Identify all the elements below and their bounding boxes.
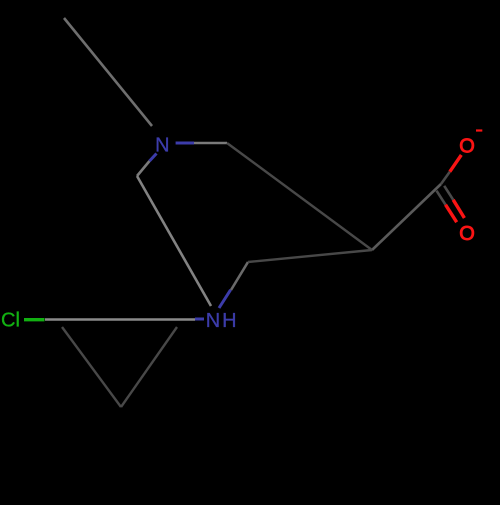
svg-text:H: H <box>222 310 236 332</box>
double bond C=O stroke 1 carbon half <box>437 191 446 205</box>
bond N-CH3 nitrogen half <box>176 142 194 145</box>
bond C-O(-) carbon half <box>441 172 450 184</box>
svg-text:O: O <box>459 135 475 157</box>
double bond C=O stroke 2 carbon half <box>444 186 453 200</box>
svg-text:N: N <box>206 310 220 332</box>
wire: horizontal chain Cl-ring-NH carbon section <box>45 318 195 321</box>
wire: ring lower-left edge <box>62 327 121 407</box>
svg-text:N: N <box>155 134 169 156</box>
charge minus sign <box>476 129 482 131</box>
wire: ring lower-right edge <box>121 327 177 407</box>
svg-text:O: O <box>459 223 475 245</box>
double bond C=O stroke 2 oxygen half <box>453 200 464 218</box>
bond NH-ring nitrogen half (left stub) <box>195 318 204 321</box>
bond N-C nitrogen half (down-left) <box>150 154 157 162</box>
wire: N to C bond carbon half (down-left) <box>137 161 150 176</box>
wire: long diagonal C-C chain to NH region <box>137 176 211 306</box>
wire: chain C-C from N-methyl region down to chain <box>227 143 372 250</box>
wire: chain C-C toward carboxylate <box>248 250 372 262</box>
wire: NH to chain carbon half <box>231 262 248 290</box>
wire: C-C bond upper-left diagonal <box>64 18 152 126</box>
double bond C=O stroke 1 oxygen half <box>446 205 457 223</box>
wire: C-C bond into carboxylate carbon <box>372 184 441 250</box>
wire: N-CH3 bond carbon half <box>194 142 227 145</box>
bond C-O(-) oxygen half <box>450 155 462 172</box>
bond NH-chain nitrogen half (up-right stub) <box>219 290 231 308</box>
bond Cl-ring chlorine half <box>24 318 45 321</box>
svg-text:Cl: Cl <box>1 310 20 332</box>
